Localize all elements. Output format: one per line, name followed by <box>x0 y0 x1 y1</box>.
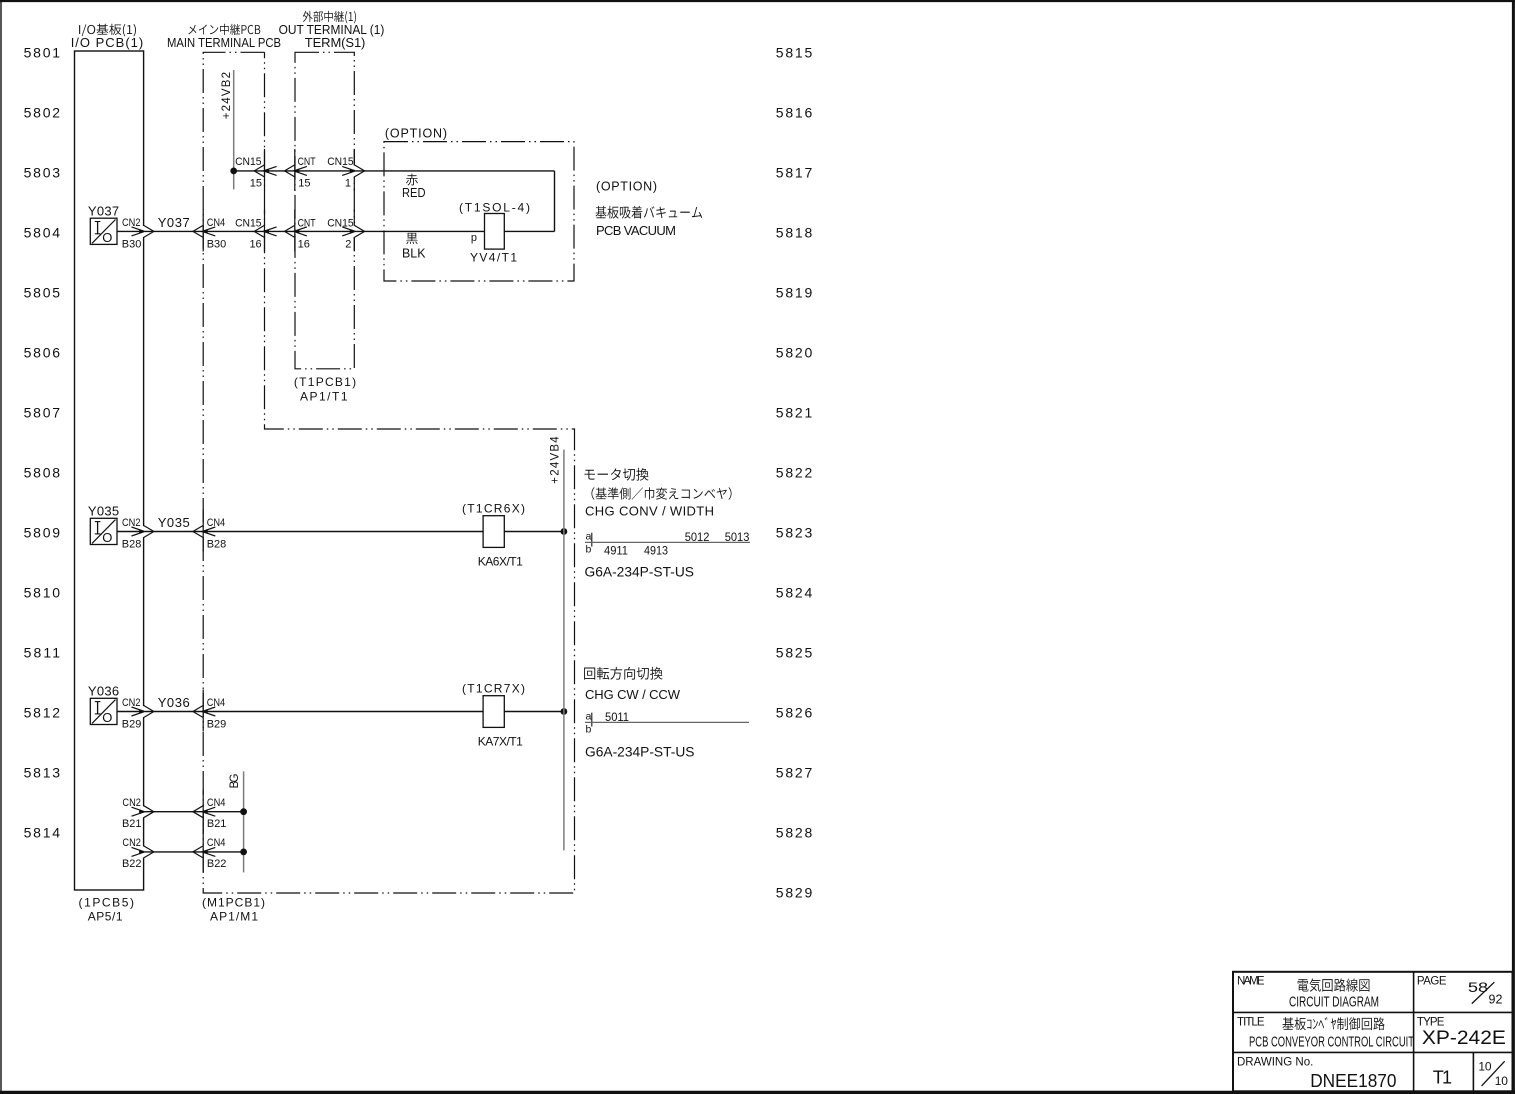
svg-text:5829: 5829 <box>776 884 813 900</box>
svg-text:5824: 5824 <box>776 584 813 600</box>
connector CN15 pin 15 (main terminal) <box>264 149 266 191</box>
svg-text:5826: 5826 <box>776 704 813 720</box>
svg-text:Y036: Y036 <box>88 684 119 699</box>
connector CN2 pin B22 <box>142 847 145 858</box>
I/O PCB(1) board box AP5/1 <box>75 51 144 890</box>
svg-text:(T1PCB1): (T1PCB1) <box>294 375 356 389</box>
wire 5803 red to PCB vacuum <box>234 170 555 172</box>
svg-text:(1PCB5): (1PCB5) <box>79 896 135 910</box>
svg-text:CN15: CN15 <box>327 156 353 168</box>
svg-text:B22: B22 <box>122 858 142 870</box>
svg-text:DRAWING No.: DRAWING No. <box>1237 1056 1313 1068</box>
OPTION boundary box (chain line) <box>384 142 574 281</box>
wire B21 <box>144 811 244 813</box>
svg-text:a: a <box>586 531 592 543</box>
svg-text:1: 1 <box>345 178 351 190</box>
svg-text:BLK: BLK <box>402 246 426 261</box>
svg-text:PCB CONVEYOR CONTROL CIRCUIT: PCB CONVEYOR CONTROL CIRCUIT <box>1249 1033 1414 1050</box>
svg-text:DNEE1870: DNEE1870 <box>1310 1070 1396 1091</box>
svg-text:5011: 5011 <box>605 710 629 724</box>
wire solenoid to return <box>504 230 554 232</box>
junction node on +24VB2 <box>230 168 237 175</box>
connector CN2 pin B21 <box>142 806 145 817</box>
svg-text:(T1SOL-4): (T1SOL-4) <box>459 201 530 215</box>
power rail +24VB2 <box>233 70 235 189</box>
svg-text:MAIN TERMINAL PCB: MAIN TERMINAL PCB <box>167 35 281 50</box>
svg-text:CHG CW / CCW: CHG CW / CCW <box>585 687 681 702</box>
svg-text:CN4: CN4 <box>207 217 226 229</box>
svg-text:AP1/M1: AP1/M1 <box>210 910 258 924</box>
node label MAIN TERMINAL PCB header <box>188 24 260 35</box>
connector CN2 pin B29 <box>142 706 145 717</box>
svg-text:58: 58 <box>1468 980 1488 995</box>
svg-text:15: 15 <box>250 178 262 190</box>
svg-text:p: p <box>471 232 477 244</box>
svg-text:5808: 5808 <box>24 464 61 480</box>
title block <box>1233 972 1513 1092</box>
svg-text:5822: 5822 <box>776 464 813 480</box>
svg-text:(T1CR6X): (T1CR6X) <box>462 502 525 516</box>
svg-text:G6A-234P-ST-US: G6A-234P-ST-US <box>585 745 695 760</box>
svg-text:CN2: CN2 <box>122 797 141 809</box>
svg-text:+24VB4: +24VB4 <box>550 436 562 484</box>
svg-text:15: 15 <box>298 178 310 190</box>
svg-text:RED: RED <box>402 185 426 200</box>
connector CNT pin 16 <box>294 209 296 251</box>
wire color label black <box>406 233 417 244</box>
svg-text:b: b <box>586 544 592 556</box>
connector CN15 pin 2 <box>353 209 355 251</box>
wire coil to +24VB4 <box>504 711 564 713</box>
svg-text:+24VB2: +24VB2 <box>221 72 233 119</box>
connector CN4 pin B28 <box>202 510 204 552</box>
svg-text:5804: 5804 <box>24 224 61 240</box>
svg-text:CN15: CN15 <box>327 218 353 230</box>
svg-text:O: O <box>102 530 112 545</box>
connector CN15 pin 1 (out terminal) <box>353 149 355 191</box>
svg-text:CNT: CNT <box>298 218 316 230</box>
wire B22 <box>144 851 244 853</box>
svg-text:O: O <box>102 230 112 245</box>
svg-text:(T1CR7X): (T1CR7X) <box>462 682 525 696</box>
svg-text:CN4: CN4 <box>207 517 226 529</box>
svg-text:B28: B28 <box>207 539 227 551</box>
svg-text:Y035: Y035 <box>88 504 119 519</box>
svg-text:5806: 5806 <box>24 344 61 360</box>
svg-text:YV4/T1: YV4/T1 <box>470 251 517 265</box>
svg-text:CHG CONV / WIDTH: CHG CONV / WIDTH <box>585 504 714 519</box>
svg-text:PCB VACUUM: PCB VACUUM <box>596 223 676 238</box>
svg-text:b: b <box>586 724 592 736</box>
junction node on +24VB4 <box>561 528 568 535</box>
svg-text:CN4: CN4 <box>207 797 226 809</box>
svg-text:5814: 5814 <box>24 824 61 840</box>
svg-text:CN2: CN2 <box>122 217 141 229</box>
svg-text:5802: 5802 <box>24 104 61 120</box>
svg-text:5803: 5803 <box>24 164 61 180</box>
connector CN4 pin B30 <box>202 209 204 251</box>
svg-text:(OPTION): (OPTION) <box>596 179 657 193</box>
wire 5812 Y036 to relay coil <box>117 711 483 713</box>
connector CN4 pin B22 <box>202 830 204 872</box>
svg-text:5815: 5815 <box>776 44 813 60</box>
svg-text:(OPTION): (OPTION) <box>385 127 447 141</box>
wire coil to +24VB4 <box>504 531 564 533</box>
junction node on +24VB4 <box>561 708 568 715</box>
wire 5804 Y037 to solenoid <box>117 230 485 232</box>
wire color label red <box>406 174 418 186</box>
svg-text:CN4: CN4 <box>207 837 226 849</box>
svg-text:KA6X/T1: KA6X/T1 <box>478 555 523 569</box>
svg-text:TERM(S1): TERM(S1) <box>305 35 366 50</box>
svg-text:5819: 5819 <box>776 284 813 300</box>
svg-text:G6A-234P-ST-US: G6A-234P-ST-US <box>585 565 695 580</box>
svg-text:T1: T1 <box>1433 1068 1452 1088</box>
connector CN2 pin B28 <box>142 526 145 537</box>
border frame <box>0 0 1515 2</box>
svg-text:2: 2 <box>345 239 351 251</box>
svg-text:Y037: Y037 <box>88 204 119 219</box>
svg-text:CN15: CN15 <box>235 218 261 230</box>
connector CN15 pin 16 <box>264 209 266 251</box>
power rail GB <box>243 771 245 872</box>
svg-text:5812: 5812 <box>24 704 61 720</box>
svg-text:B21: B21 <box>122 818 142 830</box>
svg-text:5816: 5816 <box>776 104 813 120</box>
connector CN4 pin B21 <box>202 790 204 832</box>
out terminal board boundary TERM(S1) (chain line) <box>295 52 354 369</box>
svg-text:16: 16 <box>298 239 310 251</box>
svg-text:(M1PCB1): (M1PCB1) <box>202 896 265 910</box>
connector CNT pin 15 (out terminal) <box>294 149 296 191</box>
junction node on GB <box>240 808 247 815</box>
node label OUT TERMINAL header <box>303 11 356 24</box>
svg-text:XP-242E: XP-242E <box>1422 1028 1506 1049</box>
svg-text:O: O <box>102 710 112 725</box>
svg-text:NAME: NAME <box>1237 976 1265 988</box>
wire 5809 Y035 to relay coil <box>117 531 483 533</box>
svg-text:B28: B28 <box>122 539 142 551</box>
svg-text:92: 92 <box>1489 993 1503 1007</box>
svg-text:5825: 5825 <box>776 644 813 660</box>
svg-text:5013: 5013 <box>725 530 750 544</box>
connector CN4 pin B29 <box>202 690 204 732</box>
svg-text:AP1/T1: AP1/T1 <box>300 390 348 404</box>
junction node on GB <box>240 849 247 856</box>
svg-text:5828: 5828 <box>776 824 813 840</box>
svg-text:CN15: CN15 <box>235 156 261 168</box>
svg-text:CN2: CN2 <box>122 517 141 529</box>
svg-text:B29: B29 <box>207 719 227 731</box>
svg-text:I/O PCB(1): I/O PCB(1) <box>71 35 144 50</box>
svg-text:5821: 5821 <box>776 404 813 420</box>
svg-text:B21: B21 <box>207 818 227 830</box>
svg-text:5809: 5809 <box>24 524 61 540</box>
svg-text:TYPE: TYPE <box>1417 1017 1445 1029</box>
svg-text:5818: 5818 <box>776 224 813 240</box>
svg-text:5805: 5805 <box>24 284 61 300</box>
svg-text:CIRCUIT DIAGRAM: CIRCUIT DIAGRAM <box>1289 994 1379 1011</box>
svg-text:Y035: Y035 <box>158 515 190 530</box>
svg-text:KA7X/T1: KA7X/T1 <box>478 735 523 749</box>
main terminal PCB boundary AP1/M1 (chain line) <box>203 52 574 893</box>
svg-text:10: 10 <box>1478 1060 1491 1074</box>
svg-text:Y036: Y036 <box>158 695 190 710</box>
svg-text:5820: 5820 <box>776 344 813 360</box>
svg-text:CN4: CN4 <box>207 697 226 709</box>
wire vertical return <box>554 171 556 232</box>
svg-text:CN2: CN2 <box>122 697 141 709</box>
svg-text:5807: 5807 <box>24 404 61 420</box>
svg-text:5827: 5827 <box>776 764 813 780</box>
svg-text:PAGE: PAGE <box>1417 976 1447 988</box>
svg-text:16: 16 <box>249 239 261 251</box>
connector CN2 pin B30 <box>142 226 145 237</box>
note rotation direction change <box>584 667 662 680</box>
svg-text:5823: 5823 <box>776 524 813 540</box>
svg-text:CNT: CNT <box>298 156 316 168</box>
svg-text:B29: B29 <box>122 719 142 731</box>
note motor change <box>585 468 649 481</box>
svg-text:TITLE: TITLE <box>1237 1017 1265 1029</box>
svg-text:5813: 5813 <box>24 764 61 780</box>
svg-text:a: a <box>586 711 592 723</box>
svg-text:4913: 4913 <box>644 544 668 558</box>
svg-text:BG: BG <box>229 773 241 788</box>
svg-text:B30: B30 <box>122 239 142 251</box>
svg-text:5810: 5810 <box>24 584 61 600</box>
svg-text:CN2: CN2 <box>122 837 141 849</box>
svg-text:10: 10 <box>1495 1074 1508 1088</box>
svg-text:4911: 4911 <box>604 544 628 558</box>
svg-text:AP5/1: AP5/1 <box>88 910 123 924</box>
svg-text:Y037: Y037 <box>158 215 190 230</box>
svg-text:5012: 5012 <box>685 530 710 544</box>
power rail +24VB4 <box>563 450 565 851</box>
svg-text:B30: B30 <box>207 239 227 251</box>
svg-text:B22: B22 <box>207 858 227 870</box>
svg-text:5817: 5817 <box>776 164 813 180</box>
node label I/O PCB(1) header <box>79 24 136 37</box>
svg-text:5801: 5801 <box>24 44 61 60</box>
